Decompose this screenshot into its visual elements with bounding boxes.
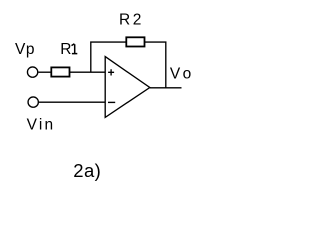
resistor R1 [51, 67, 69, 76]
resistor R2 [126, 37, 144, 46]
wire Vin to op-amp - input [39, 101, 105, 103]
wire Vp to R1 [38, 71, 51, 73]
op-amp U1 [105, 57, 150, 118]
terminal Vp [27, 67, 37, 77]
svg-text:2a): 2a) [73, 160, 101, 181]
op-amp plus input symbol [108, 69, 114, 75]
wire R1 to op-amp + input [70, 71, 106, 73]
svg-text:Vin: Vin [27, 117, 56, 134]
svg-text:Vo: Vo [170, 66, 195, 83]
svg-text:R: R [60, 41, 72, 58]
svg-text:R2: R2 [119, 11, 144, 28]
wire output [150, 87, 182, 89]
svg-text:Vp: Vp [15, 41, 35, 58]
digit 1 of R1 drawn as path [72, 44, 78, 54]
wire feedback loop from + input node over to output [91, 42, 166, 88]
op-amp minus input symbol [108, 101, 115, 103]
terminal Vin [28, 97, 38, 107]
